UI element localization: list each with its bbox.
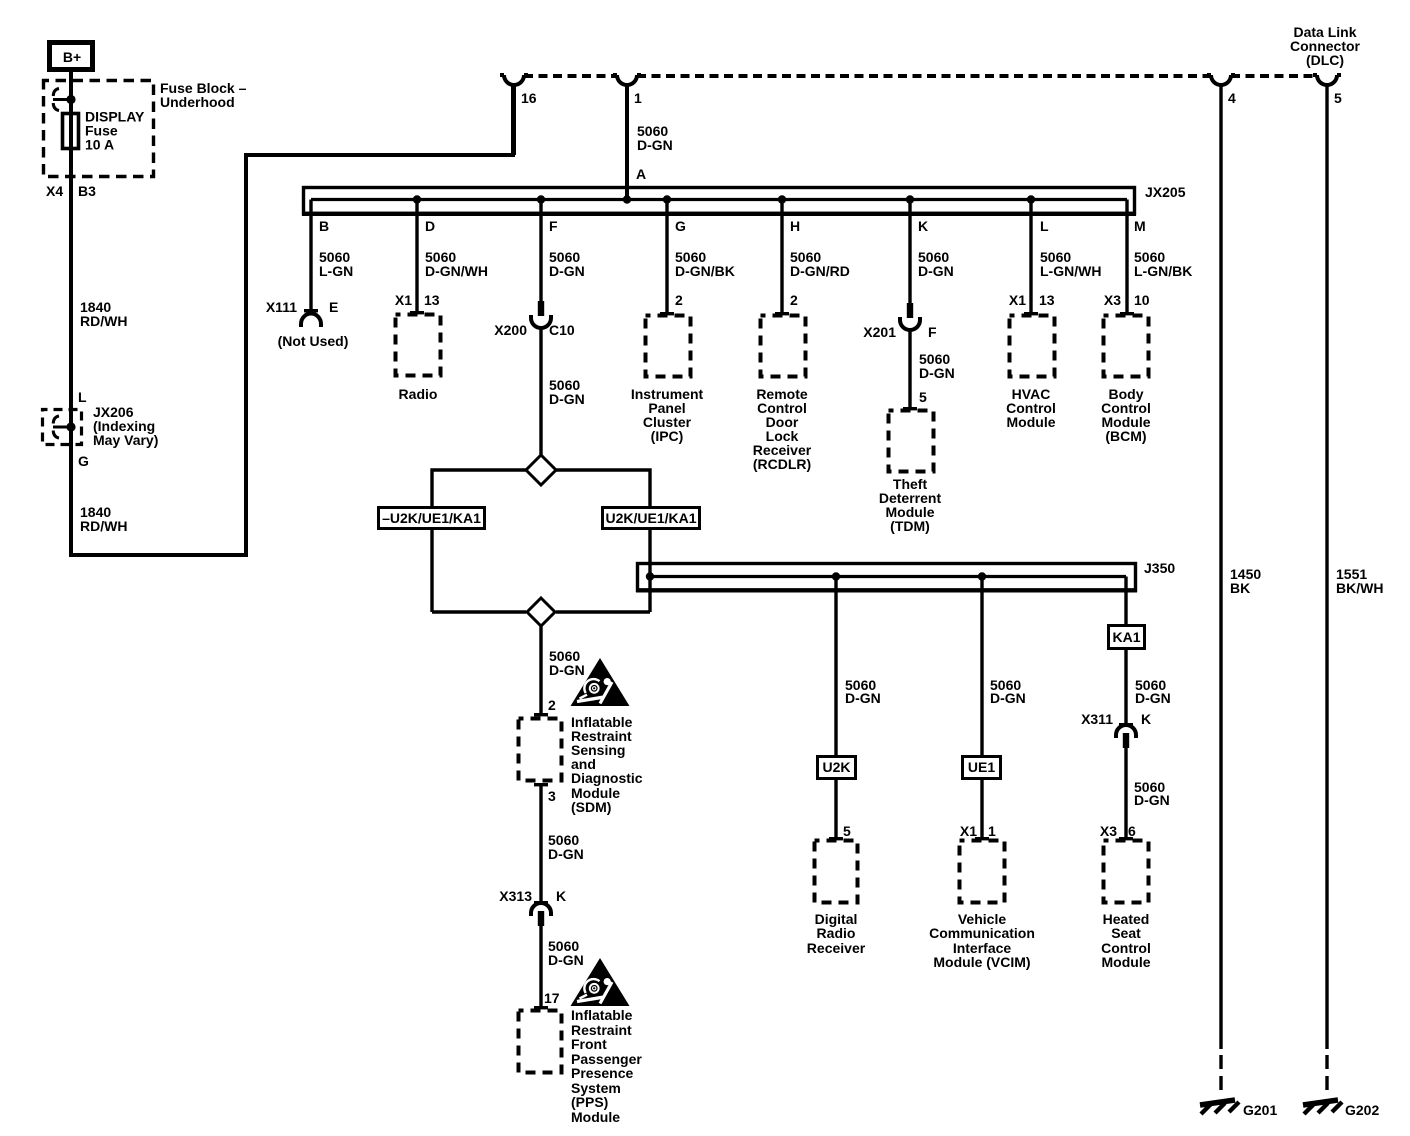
svg-text:D-GN: D-GN: [845, 690, 881, 706]
svg-text:F: F: [549, 218, 558, 234]
wire D 5060 D-GN/WH: [395, 200, 488, 312]
svg-text:KA1: KA1: [1112, 629, 1140, 645]
svg-text:U2K/UE1/KA1: U2K/UE1/KA1: [605, 510, 696, 526]
svg-text:A: A: [636, 166, 646, 182]
svg-text:D-GN: D-GN: [548, 846, 584, 862]
svg-text:B: B: [319, 218, 329, 234]
svg-text:(BCM): (BCM): [1105, 428, 1146, 444]
wire DLC16 to corner: [512, 85, 516, 155]
svg-text:(IPC): (IPC): [651, 428, 684, 444]
junction dot K on JX205: [906, 195, 914, 203]
svg-text:D-GN: D-GN: [549, 662, 585, 678]
svg-text:(SDM): (SDM): [571, 799, 611, 815]
svg-text:5: 5: [1334, 90, 1342, 106]
svg-text:D-GN: D-GN: [1134, 792, 1170, 808]
svg-text:6: 6: [1128, 823, 1136, 839]
svg-text:D: D: [425, 218, 435, 234]
ground G202: [1303, 1100, 1379, 1118]
svg-text:Front: Front: [571, 1036, 607, 1052]
radio module dashed box: [396, 311, 441, 402]
svg-text:Module: Module: [571, 1109, 620, 1125]
wire L 5060 L-GN/WH: [1009, 200, 1102, 313]
junction dot G on JX205: [663, 195, 671, 203]
svg-text:1: 1: [988, 823, 996, 839]
wire left branch to -U2K/UE1/KA1: [432, 470, 526, 612]
svg-text:U2K: U2K: [822, 759, 850, 775]
option box -U2K/UE1/KA1: [379, 508, 485, 529]
svg-text:May Vary): May Vary): [93, 432, 158, 448]
svg-text:5: 5: [919, 389, 927, 405]
junction dot A on JX205: [623, 195, 631, 203]
fuse block underhood dashed box: [44, 80, 247, 177]
wire U2K drop 5060 D-GN: [836, 577, 881, 756]
svg-text:X201: X201: [863, 324, 896, 340]
svg-text:L: L: [1040, 218, 1049, 234]
svg-text:3: 3: [548, 788, 556, 804]
svg-text:D-GN: D-GN: [549, 263, 585, 279]
svg-text:K: K: [556, 888, 566, 904]
body control module dashed box: [1101, 312, 1151, 444]
svg-text:D-GN/WH: D-GN/WH: [425, 263, 488, 279]
junction dot U2K drop on J350: [832, 572, 840, 580]
DLC cavity 1 connector: [613, 75, 642, 106]
option box KA1: [1109, 626, 1145, 649]
svg-text:X1: X1: [1009, 292, 1026, 308]
wire U2K to digital radio receiver: [836, 779, 851, 839]
wire M 5060 L-GN/BK: [1104, 200, 1192, 313]
junction dot L on JX205: [1027, 195, 1035, 203]
in-line connector X200 C10: [494, 301, 575, 338]
DLC cavity 16 connector: [500, 75, 537, 106]
airbag warning triangle upper: [571, 658, 630, 706]
wire F lower 5060 D-GN to splice: [541, 328, 585, 455]
wire right branch to U2K/UE1/KA1: [556, 470, 650, 612]
heated seat control module dashed box: [1101, 837, 1151, 970]
svg-text:Underhood: Underhood: [160, 94, 235, 110]
svg-text:X311: X311: [1081, 711, 1113, 727]
option box UE1: [963, 757, 1001, 779]
wire bottom joining branches: [432, 610, 650, 613]
wire label 1840 RD/WH lower: [80, 504, 127, 534]
svg-text:D-GN: D-GN: [549, 391, 585, 407]
wire PPS feed 5060 D-GN: [541, 926, 584, 1006]
svg-text:10 A: 10 A: [85, 137, 114, 153]
junction dot in JX206: [66, 422, 75, 431]
splice diamond upper: [526, 455, 556, 485]
junction dot at fuse feed: [66, 95, 75, 104]
svg-text:RD/WH: RD/WH: [80, 518, 127, 534]
junction dot left end J350: [646, 572, 654, 580]
svg-text:(Not Used): (Not Used): [278, 333, 349, 349]
svg-text:Radio: Radio: [399, 386, 438, 402]
svg-text:G201: G201: [1243, 1102, 1277, 1118]
svg-text:D-GN: D-GN: [990, 690, 1026, 706]
svg-text:Diagnostic: Diagnostic: [571, 770, 643, 786]
in-line connector X313 K: [499, 888, 566, 926]
svg-text:B3: B3: [78, 183, 96, 199]
svg-text:Module: Module: [1007, 414, 1056, 430]
svg-text:(PPS): (PPS): [571, 1094, 608, 1110]
svg-text:4: 4: [1228, 90, 1236, 106]
svg-text:L-GN/BK: L-GN/BK: [1134, 263, 1192, 279]
svg-text:X200: X200: [494, 322, 527, 338]
splice pack J350: [636, 560, 1175, 591]
connector X111 cavity E not used: [266, 299, 349, 349]
svg-text:K: K: [1141, 711, 1151, 727]
option box U2K: [818, 757, 856, 779]
svg-text:X3: X3: [1100, 823, 1117, 839]
wire F upper 5060 D-GN: [541, 200, 585, 302]
svg-text:10: 10: [1134, 292, 1150, 308]
DLC cavity 5 connector: [1313, 75, 1342, 106]
svg-text:BK: BK: [1230, 580, 1250, 596]
svg-text:B+: B+: [63, 49, 81, 65]
inflatable restraint SDM dashed box: [519, 713, 643, 815]
wire SDM pin 3 down 5060 D-GN: [541, 786, 584, 901]
svg-text:C10: C10: [549, 322, 575, 338]
theft deterrent module dashed box: [879, 407, 942, 534]
option box U2K/UE1/KA1: [603, 508, 700, 529]
svg-text:2: 2: [548, 697, 556, 713]
vehicle communication interface module dashed box: [929, 837, 1035, 970]
wire G 5060 D-GN/BK: [667, 200, 735, 313]
svg-text:D-GN: D-GN: [919, 365, 955, 381]
wire H 5060 D-GN/RD: [782, 200, 850, 313]
svg-text:L-GN: L-GN: [319, 263, 353, 279]
wire SDM feed 5060 D-GN: [541, 626, 585, 713]
in-line connector X311 K: [1081, 711, 1151, 748]
svg-text:1: 1: [634, 90, 642, 106]
wire B 5060 L-GN: [311, 200, 353, 310]
svg-text:E: E: [329, 299, 338, 315]
wire 1551 BK/WH from DLC5 to G202: [1327, 85, 1383, 1090]
svg-text:X3: X3: [1104, 292, 1121, 308]
svg-text:RD/WH: RD/WH: [80, 313, 127, 329]
fuse DISPLAY 10A: [63, 109, 146, 153]
svg-text:D-GN/BK: D-GN/BK: [675, 263, 735, 279]
airbag warning triangle lower: [571, 958, 630, 1006]
pin labels X4 B3: [46, 183, 96, 199]
svg-text:Module: Module: [1102, 954, 1151, 970]
branch hook inside JX206: [53, 416, 70, 438]
wire UE1 to VCIM: [960, 779, 996, 839]
svg-text:Inflatable: Inflatable: [571, 1007, 633, 1023]
svg-text:G202: G202: [1345, 1102, 1379, 1118]
svg-text:2: 2: [675, 292, 683, 308]
svg-text:2: 2: [790, 292, 798, 308]
wire label 1840 RD/WH upper: [80, 299, 127, 329]
svg-text:16: 16: [521, 90, 537, 106]
junction dot F on JX205: [537, 195, 545, 203]
svg-text:D-GN: D-GN: [548, 952, 584, 968]
connector JX206 dashed box: [43, 389, 159, 469]
instrument panel cluster dashed box: [631, 312, 704, 444]
wire K lower 5060 D-GN: [910, 330, 955, 407]
svg-text:(RCDLR): (RCDLR): [753, 456, 811, 472]
svg-text:Communication: Communication: [929, 925, 1035, 941]
svg-text:L: L: [78, 389, 87, 405]
svg-text:(DLC): (DLC): [1306, 52, 1344, 68]
data link connector dashed bus line: [524, 24, 1361, 76]
svg-text:D-GN: D-GN: [1135, 690, 1171, 706]
svg-text:L-GN/WH: L-GN/WH: [1040, 263, 1101, 279]
svg-text:5: 5: [843, 823, 851, 839]
svg-text:–U2K/UE1/KA1: –U2K/UE1/KA1: [382, 510, 481, 526]
svg-text:X111: X111: [266, 299, 297, 315]
svg-text:K: K: [918, 218, 928, 234]
inflatable restraint PPS module dashed box: [519, 1006, 643, 1125]
DLC cavity 4 connector: [1207, 75, 1236, 106]
svg-text:G: G: [78, 453, 89, 469]
svg-text:X313: X313: [499, 888, 532, 904]
junction dot D on JX205: [413, 195, 421, 203]
HVAC control module dashed box: [1006, 312, 1056, 430]
svg-text:H: H: [790, 218, 800, 234]
svg-text:G: G: [675, 218, 686, 234]
svg-text:Receiver: Receiver: [807, 940, 866, 956]
wire A from DLC1 to JX205: [627, 85, 673, 200]
svg-text:D-GN: D-GN: [637, 137, 673, 153]
svg-text:X1: X1: [960, 823, 977, 839]
junction dot H on JX205: [778, 195, 786, 203]
wire from B+ through fuse to JX206 and bottom corner: [71, 72, 513, 555]
battery feed B+: [50, 43, 93, 70]
svg-text:13: 13: [424, 292, 440, 308]
svg-text:JX205: JX205: [1145, 184, 1186, 200]
svg-text:UE1: UE1: [968, 759, 995, 775]
svg-text:D-GN: D-GN: [918, 263, 954, 279]
branch hook symbol in fuse block: [53, 89, 70, 111]
remote control door lock receiver dashed box: [753, 312, 812, 472]
svg-text:(TDM): (TDM): [890, 518, 930, 534]
ground G201: [1200, 1100, 1277, 1118]
svg-text:13: 13: [1039, 292, 1055, 308]
svg-text:17: 17: [544, 990, 560, 1006]
svg-text:F: F: [928, 324, 937, 340]
digital radio receiver dashed box: [807, 837, 866, 956]
wire 1450 BK from DLC4 to G201: [1221, 85, 1261, 1090]
svg-text:Seat: Seat: [1111, 925, 1141, 941]
svg-text:J350: J350: [1144, 560, 1175, 576]
junction dot UE1 drop on J350: [978, 572, 986, 580]
wire K upper 5060 D-GN: [910, 200, 954, 304]
svg-text:M: M: [1134, 218, 1146, 234]
svg-text:X1: X1: [395, 292, 412, 308]
wire UE1 drop 5060 D-GN: [982, 577, 1026, 756]
wire KA1 to X311 5060 D-GN: [1126, 648, 1171, 723]
splice pack JX205: [302, 184, 1186, 214]
svg-text:Radio: Radio: [817, 925, 856, 941]
wire X311 to heated seat module 5060 D-GN: [1100, 748, 1170, 839]
in-line connector X201 F: [863, 303, 937, 340]
svg-text:X4: X4: [46, 183, 63, 199]
svg-text:Presence: Presence: [571, 1065, 633, 1081]
splice diamond lower: [527, 598, 555, 626]
svg-text:Module (VCIM): Module (VCIM): [933, 954, 1030, 970]
svg-text:BK/WH: BK/WH: [1336, 580, 1383, 596]
svg-text:D-GN/RD: D-GN/RD: [790, 263, 850, 279]
wire KA1 drop from J350: [1124, 577, 1127, 625]
